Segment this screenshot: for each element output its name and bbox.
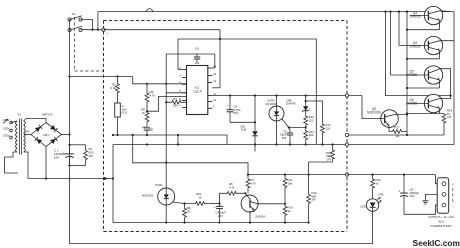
svg-text:CR1: CR1 xyxy=(43,133,49,137)
resistor R8 xyxy=(219,193,221,203)
resistor R13 xyxy=(305,128,307,130)
wire pin12 riser xyxy=(219,30,221,88)
junction xyxy=(116,75,118,77)
svg-text:1.8k: 1.8k xyxy=(172,104,178,108)
wire gate node xyxy=(289,127,306,129)
svg-text:2N3055: 2N3055 xyxy=(406,102,417,106)
svg-text:C2: C2 xyxy=(142,125,146,129)
wire +feed mid xyxy=(133,135,248,177)
capacitor C3 xyxy=(146,123,148,128)
wire output to terminal1 xyxy=(435,175,442,184)
resistor R18 xyxy=(440,113,445,115)
SCR2 anode wire xyxy=(276,96,278,107)
svg-text:R4: R4 xyxy=(173,97,177,101)
feedthrough terminal at box left xyxy=(102,28,105,31)
wire hop on top rail xyxy=(147,9,153,12)
svg-text:T1: T1 xyxy=(17,113,21,117)
resistor R2 xyxy=(116,77,120,101)
rail feedthrough arrow xyxy=(104,177,108,180)
lamp I1 xyxy=(117,100,119,103)
wire R2-branch corner xyxy=(133,77,187,84)
svg-text:+: + xyxy=(107,32,109,36)
wire +V bus y135 xyxy=(113,135,227,145)
T1 secondary top wire xyxy=(24,119,46,123)
svg-text:MCR106: MCR106 xyxy=(265,102,276,106)
wire switch-left vertical xyxy=(69,77,71,136)
svg-text:+: + xyxy=(214,205,216,209)
switch S1 xyxy=(68,18,71,21)
resistor R12 xyxy=(305,114,307,116)
resistor R16 xyxy=(283,204,287,218)
shield box top edge (dashed) xyxy=(104,20,348,22)
svg-text:SCR1: SCR1 xyxy=(155,183,163,187)
SCR2 cathode wire xyxy=(276,121,278,145)
junction xyxy=(146,143,148,145)
svg-text:220: 220 xyxy=(325,126,330,130)
svg-text:4.7k: 4.7k xyxy=(229,185,235,189)
svg-text:+: + xyxy=(227,103,229,107)
wire collector tie vertical xyxy=(386,12,451,96)
wire pin11 drive W1 xyxy=(212,95,362,97)
svg-text:25V: 25V xyxy=(218,214,223,218)
junction xyxy=(91,29,93,31)
wiper wire xyxy=(146,110,148,112)
capacitor C6 xyxy=(196,54,198,57)
junction xyxy=(406,113,408,115)
SCR1 cathode wire xyxy=(165,205,167,223)
wire base vertical Q4 xyxy=(398,12,400,46)
svg-text:10k: 10k xyxy=(288,181,293,185)
SCR2 gate wire xyxy=(282,119,289,128)
svg-text:2N2924: 2N2924 xyxy=(255,215,265,219)
svg-text:C6: C6 xyxy=(195,47,199,51)
diode CR5 xyxy=(254,96,256,128)
T1 primary bottom wire xyxy=(5,152,19,173)
svg-text:125V: 125V xyxy=(3,118,10,122)
wire W1 to Q2 base xyxy=(362,96,381,119)
wire R14 to R15 xyxy=(309,161,333,163)
svg-text:MJE1090: MJE1090 xyxy=(367,111,381,115)
wire bridge + output xyxy=(62,134,70,136)
resistor R10 xyxy=(192,202,208,206)
zener CR8 xyxy=(305,96,307,104)
transistor Q3 xyxy=(424,6,442,24)
transistor Q6 xyxy=(424,94,442,112)
wire S1 upper pole to lower wire xyxy=(81,20,93,30)
svg-text:1W: 1W xyxy=(447,115,452,119)
resistor R1 xyxy=(84,145,88,166)
svg-text:COL: COL xyxy=(122,111,128,115)
Q6 emitter wire xyxy=(407,113,440,115)
Q3 emitter wire xyxy=(407,29,440,31)
capacitor C8 xyxy=(403,174,405,176)
resistor R9 xyxy=(184,204,186,207)
wire output bus y144.5 xyxy=(113,144,454,146)
svg-text:50V: 50V xyxy=(234,111,239,115)
T1 secondary bottom wire xyxy=(24,152,28,179)
thyristor SCR2 xyxy=(269,106,284,121)
junction xyxy=(116,134,118,136)
node A junction xyxy=(68,75,70,77)
svg-text:R17: R17 xyxy=(394,125,400,129)
wire riser to top rail xyxy=(97,12,99,30)
transformer T1 xyxy=(16,121,18,125)
resistor R11 xyxy=(284,175,286,177)
wire output feed y174.6 xyxy=(248,174,347,176)
wire top rail xyxy=(98,11,454,13)
svg-text:LED: LED xyxy=(360,204,366,208)
svg-text:−: − xyxy=(452,205,454,209)
capacitor C5 xyxy=(289,128,290,130)
svg-text:105V: 105V xyxy=(3,134,10,138)
capacitor C4 xyxy=(229,96,231,108)
bridge rectifier CR1 xyxy=(31,123,62,147)
svg-text:HEP176: HEP176 xyxy=(42,113,53,117)
junction xyxy=(219,38,221,40)
svg-text:+: + xyxy=(452,183,454,187)
wire ground rail left xyxy=(28,178,104,180)
wire right bus y135 xyxy=(347,134,445,136)
svg-text:30 A: 30 A xyxy=(438,220,444,224)
wire bridge - to rail xyxy=(45,147,47,179)
resistor R14b xyxy=(332,145,334,148)
wire y29.7 inside box xyxy=(104,29,221,31)
wire R1 bottom link xyxy=(70,165,86,167)
svg-text:.01M: .01M xyxy=(240,128,247,132)
T1 secondary mid wire (20V) xyxy=(24,134,31,136)
wire pin3 feed xyxy=(185,83,187,85)
svg-text:+: + xyxy=(399,190,401,194)
transistor Q5 xyxy=(424,66,442,84)
wire base vertical Q5 xyxy=(390,12,392,75)
svg-text:SeekIC.com: SeekIC.com xyxy=(413,238,460,248)
svg-text:115V: 115V xyxy=(3,127,9,131)
wire C6 loop xyxy=(166,53,215,55)
wire CR5 stub xyxy=(254,145,256,152)
svg-text:MCR103: MCR103 xyxy=(142,194,153,198)
resistor R15 xyxy=(307,192,311,206)
svg-text:S1: S1 xyxy=(72,12,76,16)
svg-text:INTERMITTENT: INTERMITTENT xyxy=(430,224,451,228)
ground symbol xyxy=(425,194,442,199)
svg-text:2N3055: 2N3055 xyxy=(406,73,417,77)
svg-text:25V: 25V xyxy=(54,155,59,159)
svg-text:20V: 20V xyxy=(410,194,415,198)
svg-text:2N3055: 2N3055 xyxy=(409,15,420,19)
svg-text:.1Ω: .1Ω xyxy=(395,134,399,138)
svg-text:20V: 20V xyxy=(24,130,29,134)
wire emitter bus xyxy=(406,12,408,135)
svg-text:C4 10µF: C4 10µF xyxy=(216,211,227,215)
feedthrough terminal xyxy=(345,133,348,136)
transistor Q2 xyxy=(381,110,399,128)
svg-text:4.7k: 4.7k xyxy=(251,181,257,185)
shield box left edge (dashed) xyxy=(103,21,105,232)
resistor R6 xyxy=(145,111,149,123)
svg-text:.05: .05 xyxy=(149,128,153,132)
svg-text:2N3055: 2N3055 xyxy=(409,45,420,49)
svg-text:OUTPUT + 12- 14V: OUTPUT + 12- 14V xyxy=(428,215,453,219)
wire + bus down xyxy=(69,135,71,179)
mechanical link of S1 (dashed) xyxy=(74,17,76,71)
SCR1 gate wire xyxy=(172,202,192,204)
LED chain R19 xyxy=(372,174,374,176)
junction xyxy=(97,29,99,31)
svg-text:220: 220 xyxy=(309,118,314,122)
terminal strip xyxy=(437,178,449,213)
wire output line xyxy=(347,174,435,176)
svg-text:1N4745: 1N4745 xyxy=(286,102,296,106)
svg-text:2W: 2W xyxy=(312,198,317,202)
wire S1 left pole down xyxy=(69,20,71,31)
wire Q5/Q6 collector tie xyxy=(450,69,452,99)
svg-text:723CP: 723CP xyxy=(193,89,202,93)
shield box right edge (dashed) xyxy=(346,21,348,232)
feedthrough terminal xyxy=(345,173,348,176)
LED CR9 xyxy=(372,190,374,199)
feedthrough terminal xyxy=(345,143,348,146)
svg-text:2W: 2W xyxy=(89,154,94,158)
transistor Q1 xyxy=(241,195,258,212)
wire long vertical xyxy=(165,54,167,188)
svg-text:100: 100 xyxy=(195,61,200,65)
wire C8 bottom to terminal3 xyxy=(404,205,442,214)
wire gate to C7 node xyxy=(208,203,220,205)
Q5 emitter wire xyxy=(407,87,440,89)
wire inner ground rail xyxy=(113,222,309,224)
svg-text:4.7k: 4.7k xyxy=(150,93,156,97)
T1 primary taps xyxy=(10,121,13,124)
svg-text:50V: 50V xyxy=(282,136,287,140)
wire outer bottom loop xyxy=(70,179,373,244)
wire gnd rail riser xyxy=(112,145,114,223)
op-amp/regulator IC1 723 xyxy=(187,66,208,115)
Q4 emitter wire xyxy=(407,58,440,60)
wire short link xyxy=(177,135,179,145)
resistor R17 xyxy=(389,130,405,134)
resistor R5 xyxy=(145,84,149,111)
feedthrough terminal xyxy=(345,94,348,97)
resistor R4 xyxy=(166,100,186,104)
wire C1/R1 top link xyxy=(70,144,86,146)
wire right edge xyxy=(453,12,455,145)
resistor R14a xyxy=(306,101,323,122)
resistor R7 xyxy=(246,177,250,190)
shield box bottom edge (dashed) xyxy=(104,231,348,233)
svg-text:2W: 2W xyxy=(327,157,332,161)
wire outer top loop xyxy=(178,39,316,145)
svg-text:CR9: CR9 xyxy=(378,192,384,196)
svg-text:2.4k: 2.4k xyxy=(111,86,117,90)
transistor Q4 xyxy=(424,36,442,54)
svg-text:220: 220 xyxy=(309,133,314,137)
thyristor SCR1 xyxy=(158,188,175,205)
wire main feed y30 xyxy=(81,29,104,31)
capacitor C1 xyxy=(69,145,71,154)
junction xyxy=(146,134,148,136)
wire node A to R2 branch xyxy=(70,76,133,78)
capacitor C7 xyxy=(219,204,221,207)
